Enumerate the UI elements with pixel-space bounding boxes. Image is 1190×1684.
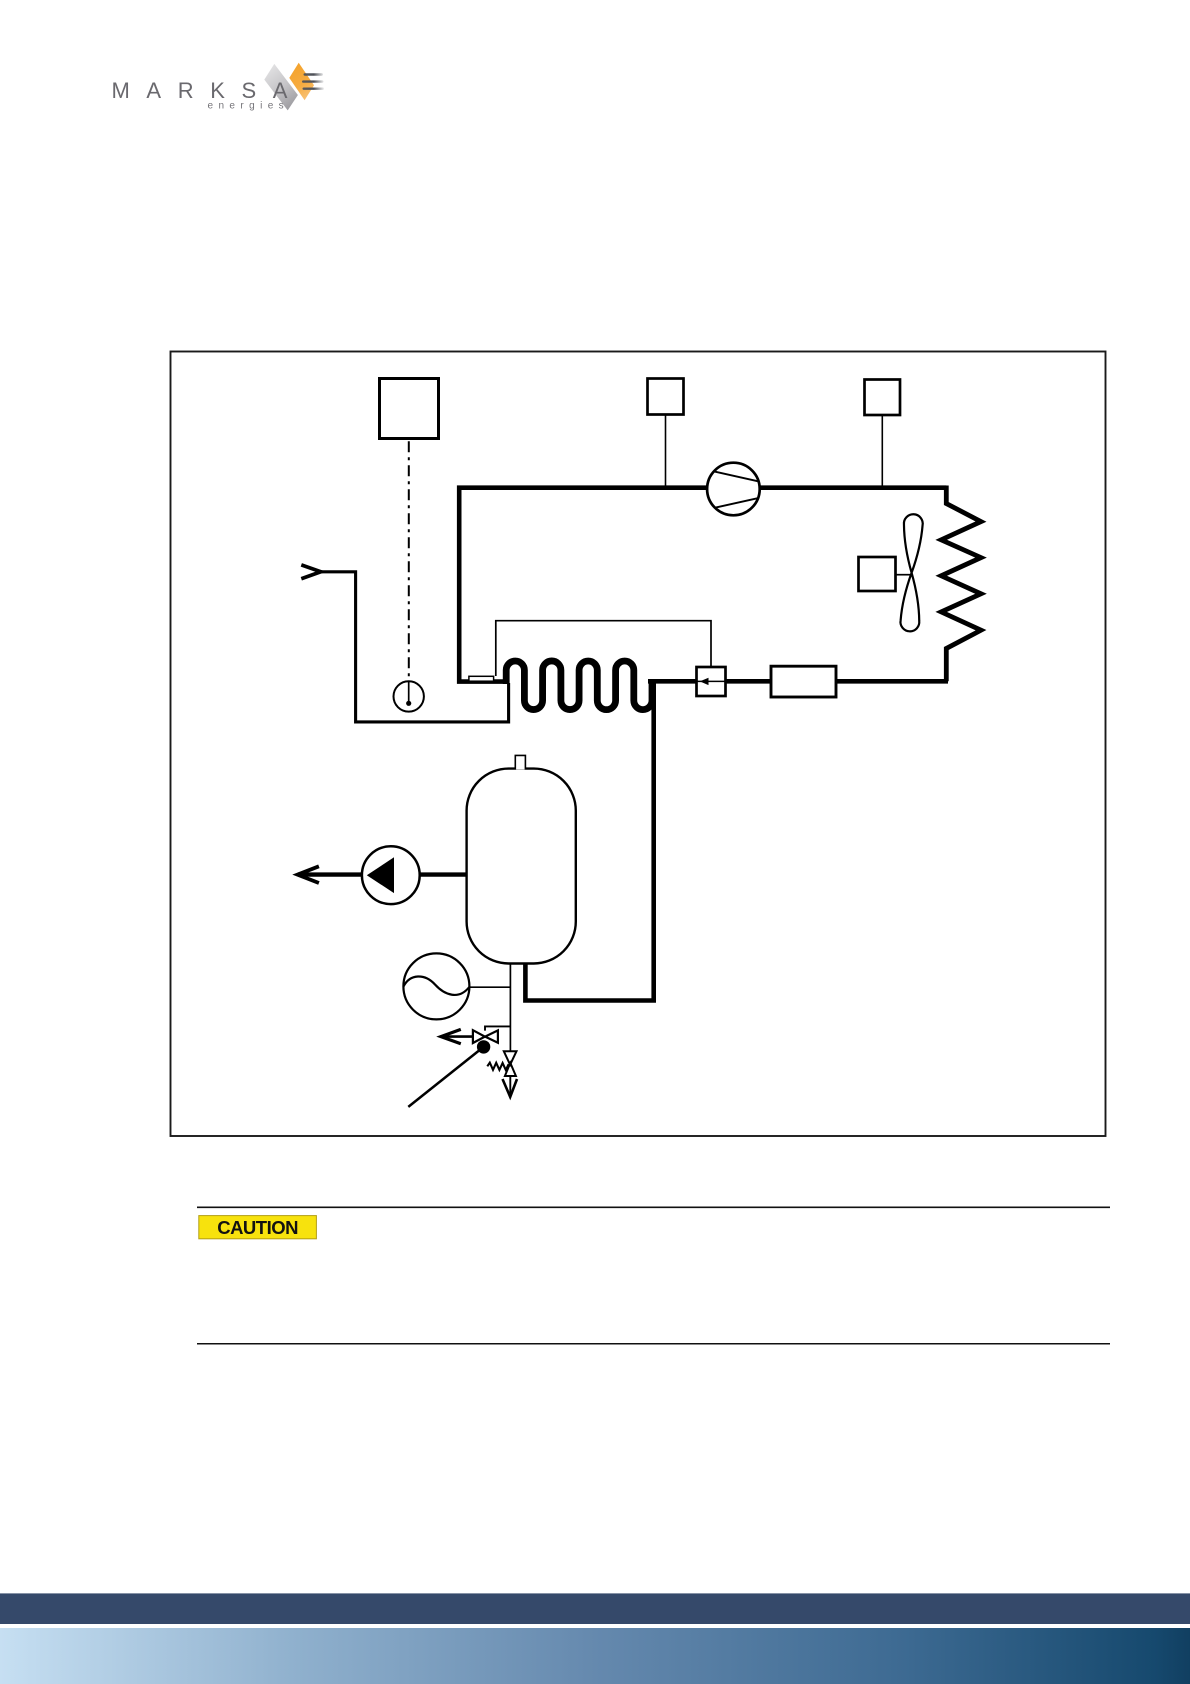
- expansion valve TXV body: [697, 667, 726, 696]
- wire stem from sensor T1 to top pipe: [665, 415, 667, 488]
- wire pump discharge line: [298, 872, 466, 876]
- pump circle: [362, 846, 420, 904]
- compressor circle: [707, 463, 760, 516]
- drain outlet arrowhead: [441, 1029, 461, 1043]
- wire main refrigerant loop (top pipe, left riser, bottom run to coil): [459, 488, 946, 682]
- pump outlet arrowhead: [298, 866, 319, 883]
- safety valve spring: [487, 1063, 508, 1070]
- controller box (large square): [380, 379, 439, 439]
- TXV sensing bulb: [469, 676, 494, 681]
- compressor chord lower: [716, 498, 758, 507]
- wire drain line: [509, 963, 511, 1051]
- fan propeller figure-eight: [900, 514, 923, 632]
- rule above caution: [197, 1206, 1110, 1208]
- electric heater circle: [403, 953, 469, 1019]
- drain valve left triangle: [473, 1030, 485, 1043]
- vessel top nub: [515, 755, 525, 769]
- thermometer circle: [394, 681, 424, 711]
- logo orange diamond: [289, 63, 314, 101]
- svg-text:energies: energies: [208, 101, 290, 112]
- compressor chord upper: [715, 472, 758, 482]
- wire liquid line down to vessel loop: [525, 679, 653, 1001]
- filter drier: [771, 666, 836, 697]
- logo speed line 1: [304, 73, 324, 75]
- logo speed line 3: [303, 88, 325, 90]
- wire relief discharge line: [509, 1076, 511, 1096]
- fan motor square: [859, 557, 896, 591]
- footer navy bar: [0, 1593, 1190, 1624]
- valve handle knob: [477, 1040, 490, 1053]
- logo gray diamond: [264, 64, 298, 111]
- water inlet arrowhead: [301, 565, 321, 579]
- wire water inlet line: [320, 572, 508, 722]
- wire drain outlet line: [442, 1035, 473, 1038]
- rule below caution section: [197, 1343, 1110, 1345]
- sensor square T2: [865, 380, 901, 416]
- valve handle lever: [408, 1047, 483, 1107]
- wire evaporator bottom pipe: [648, 679, 948, 684]
- footer gradient bar: [0, 1628, 1190, 1684]
- diagram frame: [171, 352, 1106, 1137]
- sensor square T1: [648, 379, 684, 415]
- logo speed line 2: [302, 80, 324, 82]
- TXV internal arrow: [700, 678, 709, 685]
- evaporator zigzag coil: [941, 486, 981, 682]
- drain valve right triangle: [485, 1030, 498, 1042]
- pump impeller triangle: [367, 857, 394, 893]
- thermometer bulb dot: [406, 701, 411, 706]
- fan motor link line: [896, 574, 912, 576]
- heat exchanger serpentine coil: [506, 661, 652, 710]
- caution label: [199, 1216, 317, 1239]
- heater link line: [469, 986, 510, 988]
- safety valve upper triangle: [504, 1051, 517, 1065]
- TXV internal line: [698, 680, 726, 682]
- relief discharge arrowhead: [503, 1079, 518, 1097]
- buffer vessel: [467, 769, 576, 964]
- safety valve lower triangle: [505, 1063, 516, 1076]
- wire drain jog to valve: [485, 1026, 510, 1030]
- heater sine wave: [404, 976, 470, 994]
- wire stem from sensor T2 to top pipe: [881, 416, 883, 488]
- svg-text:MARKSA: MARKSA: [112, 78, 305, 103]
- dash-dot control line: [408, 441, 410, 681]
- thermometer stem: [408, 682, 410, 702]
- svg-text:CAUTION: CAUTION: [217, 1217, 298, 1238]
- TXV sensing capillary line: [496, 621, 711, 676]
